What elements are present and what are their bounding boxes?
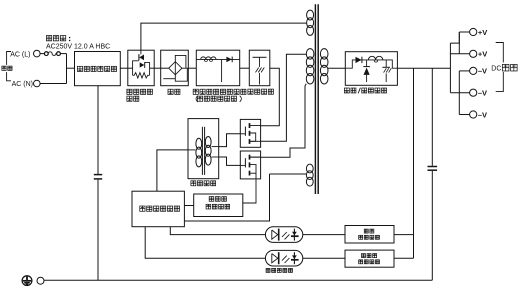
capacitor C3 output	[431, 68, 433, 166]
transformer T1 primary winding	[306, 49, 314, 60]
label 功率因数改进	[196, 96, 198, 102]
ground PE symbol	[22, 276, 32, 286]
wire terminal +V1	[459, 31, 469, 33]
block PFC 谐波电流抑制回路	[196, 50, 239, 85]
label 浪涌电流限制	[127, 89, 132, 94]
wire drive to Q1 gate	[219, 134, 241, 147]
capacitor C1 smoothing	[253, 56, 267, 58]
wire Q2 drain lead	[250, 156, 261, 158]
wire AC input vertical bus	[66, 54, 68, 84]
block rectifier 整流	[161, 50, 189, 85]
diode D4 freewheel	[366, 60, 368, 66]
optocoupler PC1	[265, 227, 302, 243]
wire drive control to overcurrent block	[184, 205, 193, 207]
wire drive control to drive transformer	[157, 150, 188, 191]
svg-text:–V: –V	[478, 110, 487, 119]
wire terminal -V2	[450, 92, 469, 94]
svg-text:AC250V 12.0 A HBC: AC250V 12.0 A HBC	[46, 44, 110, 51]
wire secondary to output rectifier	[328, 67, 345, 69]
transistor Q1 MOSFET	[240, 119, 260, 147]
transformer T1 aux winding top	[307, 10, 314, 20]
wire drive control to PC2	[145, 227, 265, 259]
transformer T2 left winding	[196, 138, 202, 149]
wire bridge stub	[163, 78, 175, 80]
wire rectifier to PFC	[188, 67, 196, 69]
svg-text:AC (N): AC (N)	[12, 81, 33, 88]
terminal +V1	[470, 28, 477, 35]
block overcurrent detection 过电流检测回路	[194, 194, 243, 217]
wire voltage det right link	[394, 234, 414, 236]
terminal -V1	[470, 67, 477, 74]
capacitor C2	[385, 60, 387, 67]
block smoothing 平滑回路	[249, 50, 269, 85]
thyristor Q3 inrush bypass triac	[138, 54, 140, 60]
label 平滑回路	[248, 89, 253, 94]
label 整流	[168, 89, 173, 94]
block drive circuit 驱动回路 T2	[188, 119, 219, 179]
block drive control 驱动控制回路	[132, 191, 184, 227]
optocoupler PC2	[265, 250, 302, 266]
label 谐波电流抑制回路	[193, 89, 198, 94]
wire terminal -V3	[459, 114, 469, 116]
wire terminal +V2	[450, 53, 469, 55]
svg-text:+V: +V	[478, 28, 487, 37]
wire bridge top hook	[175, 55, 186, 68]
wire drive to Q2 gate	[219, 157, 241, 165]
wire inrush to rectifier	[154, 67, 161, 69]
wire terminal -V1	[459, 70, 469, 72]
inductor L1	[201, 57, 216, 60]
wire inrush internal loop	[133, 61, 139, 76]
wire aux bottom winding to drive control	[270, 173, 307, 175]
wire PC2 to overvoltage detection	[303, 257, 345, 259]
terminal AC (L)	[34, 50, 41, 57]
diode bridge D1	[169, 62, 182, 75]
label 光电耦合器	[266, 268, 270, 272]
wire filter to inrush limiter	[120, 67, 128, 69]
transistor Q2 MOSFET	[240, 151, 260, 179]
transformer T2 core	[201, 127, 203, 175]
wire sense drop to detection blocks	[413, 68, 415, 258]
svg-text:–V: –V	[478, 67, 487, 76]
wire primary bottom to Q2 drain	[261, 84, 307, 157]
wire filter earth drop	[97, 86, 99, 174]
svg-text:–V: –V	[478, 89, 487, 98]
resistor R1 inrush	[133, 73, 150, 78]
wire input bus to filter	[67, 67, 75, 69]
transformer T1 aux winding bottom	[306, 164, 313, 173]
transformer T1 core	[314, 4, 316, 194]
block inrush current limiter 浪涌电流限制	[128, 50, 154, 85]
diode D3	[356, 57, 362, 63]
wire Q1 body-source	[250, 133, 256, 141]
wire +V jog	[450, 32, 459, 43]
wire smoothing output to Q1 drain	[261, 68, 280, 126]
wire Q1 source to primary top	[261, 54, 307, 141]
wire overvoltage det right link	[394, 257, 414, 259]
transformer T2 right winding	[205, 137, 211, 148]
fuse F1	[44, 52, 48, 56]
block noise filter 抗干扰滤波器	[75, 52, 121, 86]
wire AC L to bus	[40, 53, 44, 55]
terminal PE	[37, 277, 44, 284]
wire -V jog	[458, 71, 460, 115]
inductor L2	[368, 56, 382, 60]
block voltage detection 电压检测回路	[345, 226, 394, 244]
wire drive control to PC1	[170, 227, 265, 235]
wire PFC switch branch	[221, 59, 223, 82]
block overvoltage detection 过电压检测回路	[345, 250, 394, 267]
wire output block internal path	[345, 60, 397, 68]
node input brace 输入	[7, 52, 11, 81]
bracket DC output range	[496, 43, 504, 92]
capacitor C4 Y-cap	[94, 174, 102, 176]
wire thyristor gate stub to bias line	[140, 50, 142, 54]
transformer T1 secondary winding	[320, 49, 328, 60]
wire T2 input lead	[188, 149, 196, 151]
wire bridge input	[161, 67, 169, 69]
svg-text:+V: +V	[478, 50, 487, 59]
wire PC1 to voltage detection	[303, 234, 345, 236]
diode D2	[226, 57, 231, 63]
wire output main to terminal bus	[397, 67, 450, 69]
terminal AC (N)	[34, 80, 41, 87]
label 整流/平滑回路	[344, 88, 349, 93]
wire Q2 body-source down to overcurrent sense	[243, 165, 256, 203]
wire PFC top path	[196, 58, 239, 60]
wire bridge right corner link	[182, 67, 186, 69]
wire bridge bottom hook	[175, 69, 187, 82]
terminal -V3	[470, 111, 477, 118]
wire bias line from inrush to transformer aux winding	[141, 23, 307, 50]
label 驱动回路	[191, 181, 196, 186]
label fuse 保险丝 AC250V 12.0 A HBC	[46, 36, 51, 41]
terminal -V2	[470, 89, 477, 96]
wire PFC to smoothing	[240, 67, 250, 69]
wire inrush internal left node	[128, 67, 133, 69]
node output bus	[449, 43, 451, 93]
block output rectifier 整流/平滑回路	[345, 52, 397, 86]
wire AC N to bus	[40, 83, 66, 85]
svg-text:DC: DC	[491, 66, 501, 73]
wire ground rail	[44, 279, 432, 281]
svg-text:AC (L): AC (L)	[10, 51, 30, 58]
terminal +V2	[470, 50, 477, 57]
